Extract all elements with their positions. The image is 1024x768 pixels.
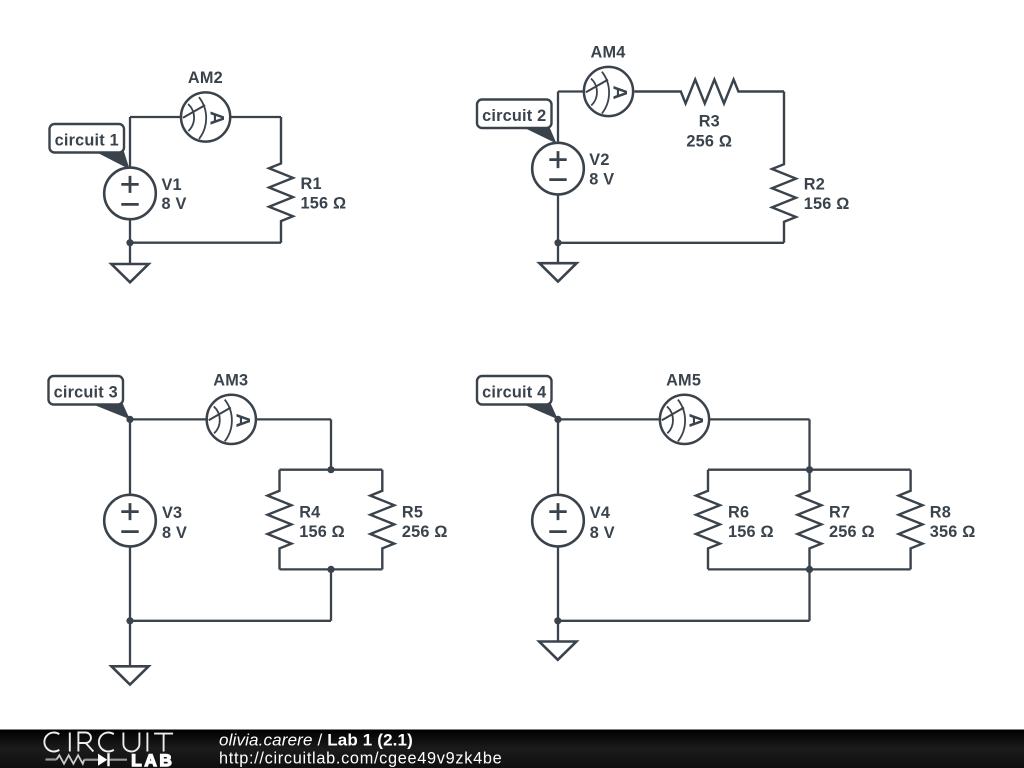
svg-text:R1: R1: [301, 175, 322, 193]
wire: [558, 418, 810, 420]
wire (top rail): [708, 469, 911, 471]
junction: [806, 566, 813, 573]
voltage source V4: [532, 495, 584, 547]
svg-text:circuit 1: circuit 1: [55, 132, 119, 150]
svg-text:AM4: AM4: [591, 43, 626, 61]
wire (top rail): [280, 469, 383, 471]
svg-text:circuit 4: circuit 4: [482, 384, 546, 402]
voltage source V1: [104, 168, 156, 220]
svg-text:8 V: 8 V: [162, 195, 187, 213]
callout circuit 2 tail: [522, 126, 557, 144]
wire: [130, 242, 281, 244]
wire (ground stem): [557, 621, 559, 642]
svg-text:V2: V2: [589, 151, 609, 169]
svg-text:R5: R5: [402, 503, 423, 521]
callout circuit 4 box: [477, 376, 552, 405]
logo resistor lead: [46, 758, 57, 760]
svg-text:LAB: LAB: [131, 751, 174, 768]
wire (ground stem): [557, 243, 559, 263]
wire: [558, 620, 810, 622]
junction: [327, 466, 334, 473]
logo diode: [98, 754, 107, 766]
wire (ground stem): [129, 621, 131, 667]
wire: [558, 90, 634, 92]
wire: [558, 242, 784, 244]
svg-text:circuit 3: circuit 3: [54, 384, 118, 402]
junction: [806, 466, 813, 473]
svg-text:AM5: AM5: [666, 372, 701, 390]
wire (bottom rail): [708, 568, 911, 570]
wire: [808, 569, 810, 620]
svg-text:R6: R6: [728, 503, 749, 521]
callout circuit 1 tail: [94, 150, 129, 168]
wire: [129, 419, 131, 620]
svg-text:156 Ω: 156 Ω: [728, 523, 774, 541]
resistor R4: [268, 470, 292, 570]
svg-text:olivia.carere / Lab 1 (2.1): olivia.carere / Lab 1 (2.1): [219, 730, 413, 749]
ammeter AM5: [660, 395, 709, 444]
ground: [539, 263, 576, 281]
wire: [330, 569, 332, 620]
CircuitLab logo: CIRCUIT letters: [44, 732, 173, 751]
svg-text:circuit 2: circuit 2: [482, 107, 546, 125]
svg-text:AM2: AM2: [188, 69, 223, 87]
callout circuit 2 box: [477, 100, 552, 129]
svg-text:R3: R3: [699, 113, 720, 131]
ground: [111, 666, 148, 684]
junction: [554, 416, 561, 423]
resistor R8: [899, 470, 923, 570]
callout circuit 3 box: [49, 376, 124, 405]
ammeter AM3: [207, 395, 256, 444]
resistor R2: [772, 92, 796, 243]
svg-text:8 V: 8 V: [590, 524, 615, 542]
junction: [554, 617, 561, 624]
wire: [808, 419, 810, 469]
svg-text:R7: R7: [829, 503, 850, 521]
resistor R7: [798, 470, 822, 570]
resistor R1: [269, 117, 293, 243]
svg-text:256 Ω: 256 Ω: [402, 523, 448, 541]
svg-text:8 V: 8 V: [162, 524, 187, 542]
resistor R6: [696, 470, 720, 570]
svg-text:AM3: AM3: [213, 372, 248, 390]
junction: [126, 239, 133, 246]
junction: [327, 566, 334, 573]
svg-text:8 V: 8 V: [589, 171, 614, 189]
junction: [126, 617, 133, 624]
junction: [126, 416, 133, 423]
wire: [130, 620, 331, 622]
svg-text:156 Ω: 156 Ω: [301, 194, 347, 212]
wire: [330, 419, 332, 469]
voltage source V2: [532, 143, 584, 195]
wire (ground stem): [129, 243, 131, 264]
svg-text:356 Ω: 356 Ω: [930, 523, 976, 541]
wire: [130, 418, 331, 420]
ground: [539, 642, 576, 660]
resistor R3: [634, 80, 784, 104]
ammeter AM2: [181, 92, 230, 141]
logo wire: [84, 759, 98, 761]
ammeter AM4: [584, 67, 633, 116]
logo resistor: [57, 755, 85, 764]
svg-text:256 Ω: 256 Ω: [686, 132, 732, 150]
ground: [111, 264, 148, 282]
svg-text:V3: V3: [162, 504, 182, 522]
svg-text:http://circuitlab.com/cgee49v9: http://circuitlab.com/cgee49v9zk4be: [219, 749, 502, 767]
voltage source V3: [104, 495, 156, 547]
svg-text:R8: R8: [930, 503, 951, 521]
svg-text:V1: V1: [162, 176, 182, 194]
callout circuit 1 box: [50, 124, 125, 153]
svg-text:156 Ω: 156 Ω: [299, 523, 345, 541]
wire: [129, 117, 131, 243]
wire: [557, 92, 559, 243]
callout circuit 4 tail: [519, 402, 558, 419]
svg-text:V4: V4: [590, 504, 610, 522]
junction: [554, 239, 561, 246]
svg-text:R4: R4: [299, 503, 320, 521]
svg-text:156 Ω: 156 Ω: [804, 195, 850, 213]
callout circuit 3 tail: [88, 402, 130, 419]
wire (bottom rail): [280, 568, 383, 570]
wire: [557, 419, 559, 620]
wire: [130, 116, 281, 118]
logo wire: [110, 759, 127, 761]
resistor R5: [370, 470, 394, 570]
svg-text:256 Ω: 256 Ω: [829, 523, 875, 541]
svg-text:R2: R2: [804, 176, 825, 194]
